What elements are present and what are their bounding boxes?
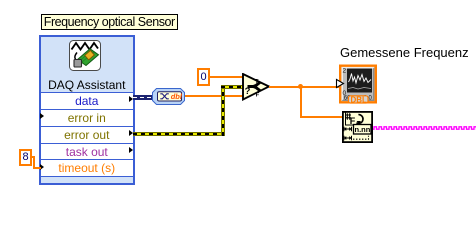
converter Convert from Dynamic Data	[152, 88, 185, 105]
wire select to junction to chart	[269, 86, 339, 88]
svg-text:2: 2	[343, 68, 347, 75]
constant 8	[19, 149, 32, 166]
row error out	[41, 126, 133, 143]
select node	[242, 73, 271, 101]
string wire (pink)	[373, 124, 476, 132]
row data	[41, 92, 133, 109]
svg-text:dbl: dbl	[170, 92, 182, 101]
DAQ Assistant icon	[69, 40, 101, 71]
row error in	[41, 109, 133, 126]
pin arrow timeout	[40, 164, 44, 170]
svg-text:F: F	[256, 93, 260, 99]
label Gemessene Frequenz	[340, 46, 476, 59]
dynamic data wire data to converter	[133, 95, 152, 100]
Number To Fractional String node	[342, 111, 373, 143]
svg-text:T: T	[255, 79, 259, 85]
footer strip	[41, 176, 133, 184]
pin arrow error in	[40, 113, 44, 119]
wire 8 to timeout	[31, 156, 35, 158]
pin arrow error out	[129, 130, 133, 136]
DAQ Assistant express VI U1	[39, 35, 135, 185]
constant 0	[197, 68, 210, 86]
title DAQ Assistant	[41, 78, 133, 92]
chart indicator terminal (Gemessene Frequenz)	[335, 62, 379, 106]
svg-text:DBL: DBL	[351, 95, 368, 104]
wire down to n.nn node	[300, 116, 343, 118]
wire junction down	[300, 86, 302, 118]
label Frequency optical Sensor	[41, 14, 178, 30]
pin arrow data out	[129, 96, 133, 102]
pin arrow task out	[129, 147, 133, 153]
header	[41, 37, 133, 92]
junction dot	[298, 84, 304, 90]
wire 0 to select	[210, 76, 243, 78]
wire converter to select (orange)	[185, 95, 244, 97]
error wire error out to select	[133, 132, 225, 136]
row task out	[41, 143, 133, 160]
svg-text:n.nn: n.nn	[355, 125, 371, 134]
row timeout (s)	[41, 159, 133, 176]
